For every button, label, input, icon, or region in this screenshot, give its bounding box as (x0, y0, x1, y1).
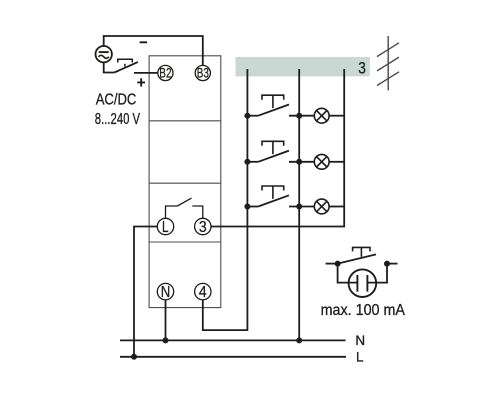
svg-text:4: 4 (199, 284, 207, 301)
svg-text:B2: B2 (159, 66, 171, 81)
svg-text:AC/DC: AC/DC (96, 92, 137, 109)
svg-text:3: 3 (199, 219, 207, 236)
svg-text:N: N (355, 333, 365, 348)
svg-text:3: 3 (358, 60, 366, 78)
svg-text:L: L (162, 219, 169, 236)
svg-text:L: L (356, 350, 364, 365)
svg-text:max. 100 mA: max. 100 mA (321, 302, 406, 319)
svg-text:N: N (161, 284, 171, 301)
svg-text:8...240 V: 8...240 V (95, 111, 141, 128)
svg-text:B3: B3 (197, 66, 209, 81)
